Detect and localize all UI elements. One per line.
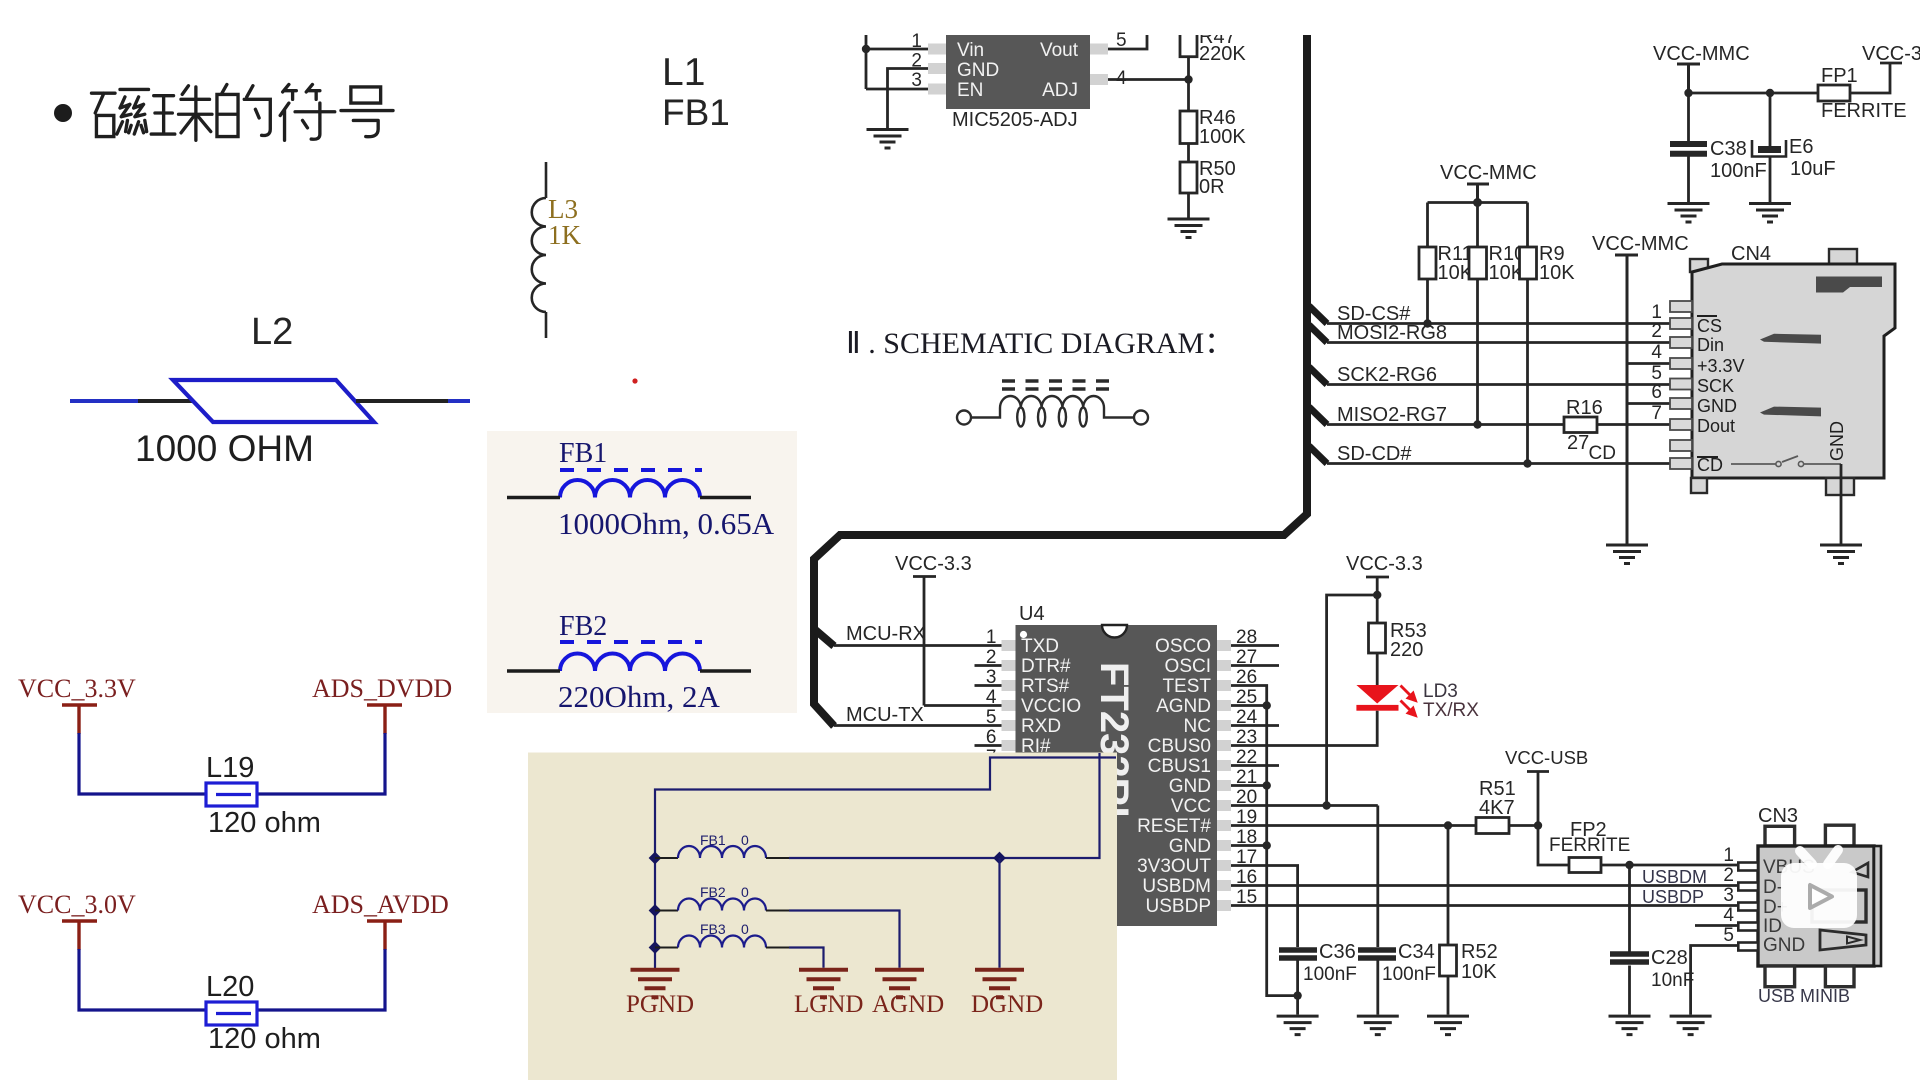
svg-text:100nF: 100nF xyxy=(1710,160,1767,182)
node C36 ground join xyxy=(1293,991,1301,999)
svg-text:220K: 220K xyxy=(1199,43,1246,65)
inductor L3 (vertical coil) xyxy=(532,162,546,338)
ground (CN4 shell) xyxy=(1820,545,1862,564)
svg-text:6: 6 xyxy=(986,727,997,748)
CN3 top-right mount tab xyxy=(1825,825,1854,846)
ground AGND xyxy=(875,970,924,998)
capacitor C34 xyxy=(1376,806,1379,948)
ferrite FP1 xyxy=(1818,85,1850,101)
svg-text:2: 2 xyxy=(986,647,997,668)
capacitor E6 (electrolytic) xyxy=(1769,93,1772,202)
svg-text:CBUS0: CBUS0 xyxy=(1148,736,1211,757)
svg-text:VCC-USB: VCC-USB xyxy=(1505,747,1588,768)
svg-text:3: 3 xyxy=(911,70,922,91)
U4 right stub pins xyxy=(1231,646,1279,766)
bus stub to MISO2-RG7 xyxy=(1309,407,1327,425)
svg-text:6: 6 xyxy=(1651,382,1662,403)
svg-text:VCC-3.3: VCC-3.3 xyxy=(895,553,972,575)
svg-text:VCC: VCC xyxy=(1171,796,1211,817)
svg-text:RTS#: RTS# xyxy=(1021,676,1070,697)
U4 top notch xyxy=(1102,625,1127,638)
CN4 connector body xyxy=(1692,264,1895,478)
svg-text:ID: ID xyxy=(1763,916,1782,937)
wire Vout pin 5 xyxy=(1108,30,1147,49)
svg-text:100nF: 100nF xyxy=(1382,964,1436,985)
ground (E6) xyxy=(1749,204,1791,223)
svg-text:GND: GND xyxy=(957,60,999,81)
svg-text:AGND: AGND xyxy=(1156,696,1211,717)
CN4 top-left mount tab xyxy=(1690,259,1708,272)
CN3 internal contact wedge xyxy=(1852,863,1868,877)
svg-text:L20: L20 xyxy=(206,971,254,1003)
resistor R52 xyxy=(1447,826,1450,946)
char 珠 xyxy=(151,86,212,141)
wire left lead of L2 xyxy=(70,399,140,403)
svg-text:C36: C36 xyxy=(1319,941,1356,963)
svg-text:Vout: Vout xyxy=(1040,40,1079,61)
ground (C36) xyxy=(1277,1016,1319,1035)
svg-text:GND: GND xyxy=(1169,776,1211,797)
svg-text:220: 220 xyxy=(1390,639,1423,661)
resistor R9 xyxy=(1520,247,1537,279)
svg-text:GND: GND xyxy=(1827,421,1847,461)
FB symbol panel background xyxy=(487,431,797,713)
wire SD-CD# xyxy=(1327,462,1670,465)
ferrite FP2 xyxy=(1569,858,1601,873)
node DGND tap xyxy=(993,852,1006,865)
svg-text:MIC5205-ADJ: MIC5205-ADJ xyxy=(952,109,1078,131)
svg-text:OSCO: OSCO xyxy=(1155,636,1211,657)
node at Vin xyxy=(862,45,870,53)
svg-text:10K: 10K xyxy=(1539,262,1575,284)
CN4 top mount tab xyxy=(1829,249,1857,264)
svg-text:Dout: Dout xyxy=(1697,416,1735,436)
ground (C38) xyxy=(1668,204,1710,223)
wire VCCIO pin 4 xyxy=(924,704,1002,707)
svg-text:FB1: FB1 xyxy=(700,832,726,848)
svg-text:120 ohm: 120 ohm xyxy=(208,807,321,839)
svg-text:C34: C34 xyxy=(1398,941,1435,963)
CN4 bottom-left mount tab xyxy=(1691,478,1707,493)
svg-text:0: 0 xyxy=(741,884,749,900)
svg-text:VCC_3.0V: VCC_3.0V xyxy=(18,890,136,919)
wire MISO2-RG7 xyxy=(1327,423,1670,426)
CN3 body right strip xyxy=(1874,846,1881,966)
wire MOSI2-RG8 xyxy=(1327,341,1670,344)
svg-text:RESET#: RESET# xyxy=(1137,816,1211,837)
svg-text:ADJ: ADJ xyxy=(1042,80,1078,101)
wire FB2 to AGND xyxy=(789,911,900,968)
svg-text:2: 2 xyxy=(1651,321,1662,342)
svg-text:+3.3V: +3.3V xyxy=(1697,356,1745,376)
FB2 coil xyxy=(560,654,700,672)
svg-text:FB2: FB2 xyxy=(559,611,607,642)
svg-text:3: 3 xyxy=(986,667,997,688)
ground (C28) xyxy=(1609,1016,1651,1035)
wire GND pin to ground xyxy=(888,69,929,129)
ground PGND xyxy=(631,970,680,998)
capacitor C38 xyxy=(1687,93,1690,202)
svg-text:CD: CD xyxy=(1589,443,1616,464)
wire net into panel (right edge to FB row) xyxy=(789,753,1100,858)
svg-text:R52: R52 xyxy=(1461,941,1498,963)
FB1 coil xyxy=(560,480,700,498)
svg-text:USBDP: USBDP xyxy=(1642,887,1704,907)
svg-text:VCC-3.3: VCC-3.3 xyxy=(1346,553,1423,575)
svg-text:Ⅱ . SCHEMATIC DIAGRAM：: Ⅱ . SCHEMATIC DIAGRAM： xyxy=(846,327,1234,360)
svg-text:R16: R16 xyxy=(1566,397,1603,419)
LED arrows xyxy=(1401,686,1416,716)
svg-text:CN3: CN3 xyxy=(1758,805,1798,827)
wire CN4 shell GND xyxy=(1840,464,1843,544)
wire SCK2-RG6 xyxy=(1327,383,1670,386)
ferrite bead FB1 (panel) xyxy=(655,857,678,859)
svg-text:GND: GND xyxy=(1697,396,1737,416)
svg-text:VCC_3.3V: VCC_3.3V xyxy=(18,674,136,703)
svg-text:OSCI: OSCI xyxy=(1165,656,1211,677)
svg-text:FB1: FB1 xyxy=(559,438,607,469)
wire bracket to R11 R10 R9 xyxy=(1428,203,1528,248)
svg-text:SCK: SCK xyxy=(1697,376,1734,396)
svg-text:VCCIO: VCCIO xyxy=(1021,696,1081,717)
CN3 connector body xyxy=(1758,846,1874,966)
U4 pin1 marker xyxy=(1020,631,1027,638)
svg-text:TEST: TEST xyxy=(1162,676,1211,697)
ground (below R50) xyxy=(1168,219,1210,238)
node VCC-MMC bracket xyxy=(1473,198,1482,207)
svg-text:4: 4 xyxy=(1651,342,1662,363)
svg-text:100K: 100K xyxy=(1199,126,1246,148)
svg-text:1K: 1K xyxy=(548,220,582,250)
node GND pin18 xyxy=(1263,841,1271,849)
wire DGND drop xyxy=(998,858,1000,968)
ground (CN4 pin 6) xyxy=(1606,545,1648,564)
svg-text:FB2: FB2 xyxy=(700,884,726,900)
bullet point xyxy=(54,104,72,122)
resistor R10 xyxy=(1469,247,1487,279)
node R52 tap xyxy=(1444,821,1452,829)
svg-text:27: 27 xyxy=(1236,647,1257,668)
svg-text:MCU-TX: MCU-TX xyxy=(846,704,924,726)
svg-text:22: 22 xyxy=(1236,747,1257,768)
bus stub to SD-CD# xyxy=(1309,446,1327,464)
svg-text:4: 4 xyxy=(986,687,997,708)
FB2 dashed core line xyxy=(560,640,702,644)
resistor R11 xyxy=(1419,247,1436,279)
svg-text:24: 24 xyxy=(1236,707,1258,728)
svg-text:CS: CS xyxy=(1697,316,1722,336)
node C38 xyxy=(1684,89,1692,97)
ferrite bead FB3 (panel) xyxy=(655,947,678,949)
svg-text:EN: EN xyxy=(957,80,983,101)
wire VCC pin 20 xyxy=(1231,804,1378,807)
ground (C34) xyxy=(1357,1016,1399,1035)
LED LD3 (red) xyxy=(1356,685,1398,704)
regulator U? MIC5205 wires: Vin net xyxy=(862,24,1236,128)
svg-text:0: 0 xyxy=(741,921,749,937)
CN3 bottom-left mount tab xyxy=(1765,966,1795,987)
FB1 dashed core line xyxy=(560,468,702,472)
svg-text:220Ohm, 2A: 220Ohm, 2A xyxy=(558,679,721,714)
svg-text:FB3: FB3 xyxy=(700,921,726,937)
bus stub to SD-CS# xyxy=(1309,306,1327,324)
CN4 card contact shape middle xyxy=(1760,334,1821,344)
wire VCC-3.3 to VCC pin20 xyxy=(1327,595,1378,806)
resistor R53 xyxy=(1376,595,1379,623)
resistor R16 xyxy=(1564,417,1597,433)
svg-text:5: 5 xyxy=(1651,363,1662,384)
svg-text:28: 28 xyxy=(1236,627,1257,648)
wire net into panel (upper) xyxy=(655,758,1116,969)
CN3 top-left mount tab xyxy=(1765,826,1795,846)
svg-text:0R: 0R xyxy=(1199,176,1225,198)
svg-text:CBUS1: CBUS1 xyxy=(1148,756,1211,777)
node GND pin21 xyxy=(1263,781,1271,789)
wire 3V3OUT pin 17 to C36 xyxy=(1231,866,1298,948)
svg-text:Vin: Vin xyxy=(957,40,984,61)
svg-text:1: 1 xyxy=(1651,302,1662,323)
svg-text:L2: L2 xyxy=(251,311,293,353)
svg-text:10nF: 10nF xyxy=(1651,970,1694,991)
svg-text:USBDP: USBDP xyxy=(1146,896,1211,917)
svg-text:U4: U4 xyxy=(1019,603,1045,625)
svg-text:DGND: DGND xyxy=(971,991,1043,1018)
datasheet inductor figure: dashes xyxy=(1002,381,1109,389)
ground DGND xyxy=(975,970,1024,998)
U4 left pads xyxy=(1002,640,1016,771)
svg-text:TX/RX: TX/RX xyxy=(1423,700,1479,721)
wire VBUS node down to FP2 xyxy=(1538,826,1569,866)
wire VCC_3.0V to L20 to ADS_AVDD xyxy=(79,949,385,1010)
thick bus polyline xyxy=(814,30,1307,726)
regulator body MIC5205 xyxy=(946,35,1090,109)
FB2 leads xyxy=(507,669,751,672)
node VCC-3.3 xyxy=(1373,591,1381,599)
svg-text:FP1: FP1 xyxy=(1821,65,1858,87)
ground (CN3 pin5) xyxy=(1670,1016,1712,1035)
wire TEST/AGND/GND chain xyxy=(1231,686,1298,996)
svg-text:D-: D- xyxy=(1763,877,1783,898)
CN4 card contact shape top xyxy=(1816,277,1882,293)
svg-text:ADS_AVDD: ADS_AVDD xyxy=(312,890,449,919)
node PGND rail at FB3 xyxy=(649,941,662,954)
CN3 ID pin4 stub xyxy=(1695,924,1740,927)
svg-text:Din: Din xyxy=(1697,335,1724,355)
CN4 bottom-right mount tab xyxy=(1826,478,1854,495)
svg-text:ADS_DVDD: ADS_DVDD xyxy=(312,674,452,703)
svg-text:USBDM: USBDM xyxy=(1142,876,1211,897)
inductor L2 body (blue parallelogram) xyxy=(173,380,374,422)
wire ADJ pin 4 xyxy=(1108,78,1189,81)
wire VCC_3.3V to L19 to ADS_DVDD xyxy=(79,733,385,794)
capacitor C28 xyxy=(1628,865,1631,1015)
svg-text:1000Ohm, 0.65A: 1000Ohm, 0.65A xyxy=(558,506,775,541)
U4 right pin names xyxy=(1137,636,1211,917)
svg-text:GND: GND xyxy=(1169,836,1211,857)
node PGND rail at FB2 xyxy=(649,904,662,917)
wire SD-CS# xyxy=(1327,322,1670,325)
node ADJ/R47/R46 xyxy=(1184,75,1192,83)
svg-text:1: 1 xyxy=(1723,845,1734,866)
U4 right pin numbers xyxy=(1236,627,1258,908)
char 符 xyxy=(280,84,335,140)
ground (MIC5205 GND pin) xyxy=(867,130,909,149)
svg-text:1: 1 xyxy=(986,627,997,648)
wire R47 to node xyxy=(1187,57,1190,112)
bus stub to SCK2-RG6 xyxy=(1309,367,1327,385)
wire R46 to R50 xyxy=(1187,144,1190,163)
node PGND rail at FB1 xyxy=(649,852,662,865)
svg-text:MCU-RX: MCU-RX xyxy=(846,623,926,645)
svg-text:5: 5 xyxy=(986,707,997,728)
FB1 leads xyxy=(507,496,751,499)
svg-text:C38: C38 xyxy=(1710,138,1747,160)
svg-text:5: 5 xyxy=(1723,925,1734,946)
CN3 pin numbers xyxy=(1723,845,1734,946)
node C28 tap xyxy=(1625,861,1633,869)
svg-text:L19: L19 xyxy=(206,752,254,784)
svg-text:TXD: TXD xyxy=(1021,636,1059,657)
svg-text:SCK2-RG6: SCK2-RG6 xyxy=(1337,364,1437,386)
svg-text:FERRITE: FERRITE xyxy=(1821,100,1907,122)
node VCC-USB xyxy=(1534,821,1542,829)
svg-text:SD-CD#: SD-CD# xyxy=(1337,443,1412,465)
resistor R51 xyxy=(1476,818,1509,834)
U4 stub pins 2 3 6 7 xyxy=(975,666,1002,766)
MIC5205 pin pads xyxy=(928,44,1108,95)
CN3 internal contact rect xyxy=(1812,890,1866,922)
U4 chip body FT232RL xyxy=(1016,625,1218,926)
svg-text:4: 4 xyxy=(1723,905,1734,926)
node on VCC pin20 wire xyxy=(1322,801,1330,809)
ferrite bead L19 body xyxy=(206,783,257,806)
wire R53 to LED xyxy=(1376,653,1379,686)
svg-text:1: 1 xyxy=(911,31,922,52)
svg-text:3: 3 xyxy=(1723,885,1734,906)
wire right lead of L2 xyxy=(356,399,450,403)
svg-text:PGND: PGND xyxy=(626,991,694,1018)
svg-text:NC: NC xyxy=(1184,716,1211,737)
wire MCU-RX to pin 1 xyxy=(834,644,1002,647)
svg-text:GND: GND xyxy=(1763,935,1805,956)
red dot artifact xyxy=(632,378,637,383)
svg-text:10K: 10K xyxy=(1461,961,1497,983)
svg-text:MISO2-RG7: MISO2-RG7 xyxy=(1337,404,1447,426)
wire R11 pull-up to SD-CS# xyxy=(1426,279,1429,324)
wire R51 to VBUS node xyxy=(1509,824,1538,827)
node E6 xyxy=(1766,89,1774,97)
svg-text:2: 2 xyxy=(911,51,922,72)
CN4 card-detect switch xyxy=(1731,463,1776,465)
svg-text:AGND: AGND xyxy=(872,991,944,1018)
capacitor C36 xyxy=(1279,950,1317,958)
svg-text:L1: L1 xyxy=(662,51,705,94)
ferrite bead L20 body xyxy=(206,1002,257,1025)
CN3 bottom-right mount tab xyxy=(1825,966,1854,987)
wire VCC-MMC / FP1 rail xyxy=(1689,63,1903,93)
U4 left pin names xyxy=(1021,636,1081,757)
svg-text:27: 27 xyxy=(1567,432,1589,454)
wire R10 pull-up to MISO2-RG7 xyxy=(1476,279,1479,425)
svg-text:1000 OHM: 1000 OHM xyxy=(135,428,314,469)
svg-text:FB1: FB1 xyxy=(662,92,730,133)
svg-text:C28: C28 xyxy=(1651,947,1688,969)
svg-text:3V3OUT: 3V3OUT xyxy=(1137,856,1211,877)
svg-text:RXD: RXD xyxy=(1021,716,1061,737)
svg-text:DTR#: DTR# xyxy=(1021,656,1071,677)
svg-text:VCC-3.3: VCC-3.3 xyxy=(1862,43,1920,65)
CN3 internal shell trapezoid xyxy=(1820,930,1866,950)
svg-text:E6: E6 xyxy=(1789,136,1813,158)
wire R9 pull-up to SD-CD# xyxy=(1526,279,1529,464)
wire LED cathode to CBUS0 pin 23 xyxy=(1231,711,1377,746)
svg-text:MOSI2-RG8: MOSI2-RG8 xyxy=(1337,322,1447,344)
video play overlay (bilibili icon) xyxy=(1781,850,1857,928)
CN4 card contact shape lower xyxy=(1760,407,1821,417)
ground LGND xyxy=(799,970,848,998)
wire FB3 to LGND xyxy=(789,948,824,968)
CN3 pin pads xyxy=(1738,863,1758,951)
svg-text:2: 2 xyxy=(1723,865,1734,886)
ground (R52) xyxy=(1427,1016,1469,1035)
char 的 xyxy=(217,84,270,136)
wire USBDP pin15 to CN3 pin3 xyxy=(1231,904,1740,907)
title text 磁珠的符号 (drawn as strokes) xyxy=(91,84,393,140)
char 磁 xyxy=(91,89,148,136)
U4 left pin numbers xyxy=(986,627,997,768)
svg-text:USBDM: USBDM xyxy=(1642,867,1707,887)
analog ground panel background xyxy=(528,753,1117,1080)
svg-text:120 ohm: 120 ohm xyxy=(208,1023,321,1055)
wire MCU-TX to pin 5 xyxy=(834,724,1002,727)
svg-text:0: 0 xyxy=(741,832,749,848)
datasheet inductor figure: terminals and coil xyxy=(957,396,1148,427)
svg-text:VCC-MMC: VCC-MMC xyxy=(1592,233,1689,255)
wire GND pin 6 to ground xyxy=(1627,404,1670,544)
svg-text:FERRITE: FERRITE xyxy=(1549,835,1630,856)
node AGND pin25 xyxy=(1263,701,1271,709)
svg-text:4K7: 4K7 xyxy=(1479,797,1515,819)
svg-text:10uF: 10uF xyxy=(1790,158,1836,180)
svg-text:LGND: LGND xyxy=(794,991,863,1018)
svg-text:5: 5 xyxy=(1116,30,1127,51)
resistor R50 xyxy=(1180,162,1197,193)
wire +3.3V pin 4 xyxy=(1627,362,1670,365)
resistor R46 xyxy=(1180,111,1197,144)
U4 right pads xyxy=(1217,640,1231,911)
wire CN3 GND pin5 xyxy=(1691,946,1740,1015)
wire RESET# pin 19 to R51 xyxy=(1231,824,1476,827)
bus stub to MCU-RX xyxy=(813,628,834,646)
CN4 pin pads xyxy=(1670,301,1692,469)
svg-text:VCC-MMC: VCC-MMC xyxy=(1440,162,1537,184)
svg-text:CN4: CN4 xyxy=(1731,243,1771,265)
svg-text:VCC-MMC: VCC-MMC xyxy=(1653,43,1750,65)
resistor R47 xyxy=(1180,24,1197,57)
svg-text:100nF: 100nF xyxy=(1303,964,1357,985)
ferrite bead FB2 (panel) xyxy=(655,910,678,912)
svg-text:7: 7 xyxy=(1651,403,1662,424)
wire FP2 to VBUS pin1 xyxy=(1601,864,1740,867)
svg-text:LD3: LD3 xyxy=(1423,681,1458,702)
char 号 xyxy=(341,87,393,137)
wire R50 to ground xyxy=(1187,193,1190,218)
svg-text:USB MINIB: USB MINIB xyxy=(1758,986,1850,1006)
wire USBDM pin16 to CN3 pin2 xyxy=(1231,884,1740,887)
bus stub to MOSI2-RG8 xyxy=(1309,325,1327,343)
